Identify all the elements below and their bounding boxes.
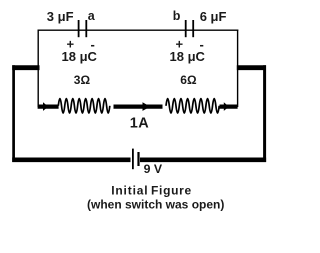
svg-text:6Ω: 6Ω	[180, 73, 197, 87]
svg-text:a: a	[88, 9, 96, 23]
svg-text:6 μF: 6 μF	[200, 9, 227, 24]
svg-text:3 μF: 3 μF	[47, 9, 74, 24]
wire: right resistor stub with current arrow	[220, 104, 238, 108]
wire: top wire of inner loop	[38, 29, 239, 31]
svg-text:b: b	[173, 9, 181, 23]
svg-text:9 V: 9 V	[144, 162, 163, 176]
wire: inner left vertical rail	[37, 30, 39, 108]
capacitor C1 3uF: left plate	[78, 20, 80, 37]
resistor R1 3ohm coil	[58, 99, 110, 113]
wire: bottom wire right of battery	[140, 158, 266, 163]
resistor R2 6ohm coil	[166, 99, 219, 113]
svg-text:1A: 1A	[130, 115, 149, 131]
svg-text:Initial: Initial	[111, 184, 148, 198]
wire: outer right vertical	[263, 65, 266, 162]
capacitor C1 3uF: right plate	[85, 20, 87, 37]
svg-text:(when switch was open): (when switch was open)	[87, 197, 224, 211]
battery B1 9V: long plate	[132, 149, 134, 170]
svg-text:18 μC: 18 μC	[170, 49, 206, 64]
svg-text:3Ω: 3Ω	[74, 73, 91, 87]
battery B1 9V: short plate	[137, 152, 139, 166]
capacitor C2 6uF: right plate	[192, 20, 194, 37]
capacitor C2 6uF: left plate	[185, 20, 187, 37]
wire: left resistor stub with current arrow	[38, 104, 59, 108]
wire: center stub with current arrow, node between R1 and R2	[114, 104, 163, 108]
wire: outer left vertical	[12, 65, 15, 162]
svg-text:Figure: Figure	[151, 184, 192, 198]
wire: bottom wire left of battery	[12, 158, 130, 163]
wire: thick right connector stub	[237, 65, 266, 70]
svg-text:18 μC: 18 μC	[62, 49, 98, 64]
wire: thick left connector stub	[12, 65, 39, 70]
wire: inner right vertical rail	[237, 30, 239, 108]
